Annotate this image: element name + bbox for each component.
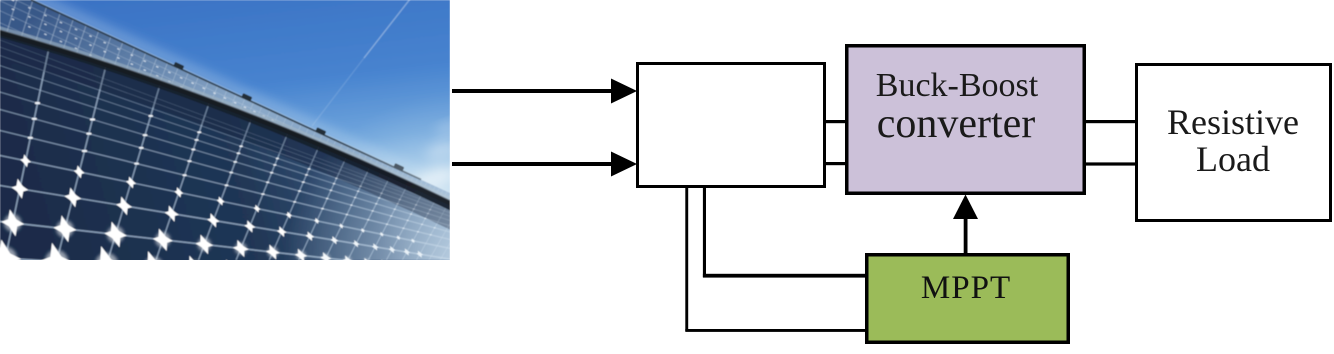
svg-text:Load: Load (1196, 139, 1270, 179)
svg-text:Buck-Boost: Buck-Boost (876, 67, 1039, 104)
svg-text:MPPT: MPPT (921, 270, 1011, 306)
svg-text:converter: converter (877, 101, 1036, 147)
svg-text:Resistive: Resistive (1167, 102, 1299, 142)
